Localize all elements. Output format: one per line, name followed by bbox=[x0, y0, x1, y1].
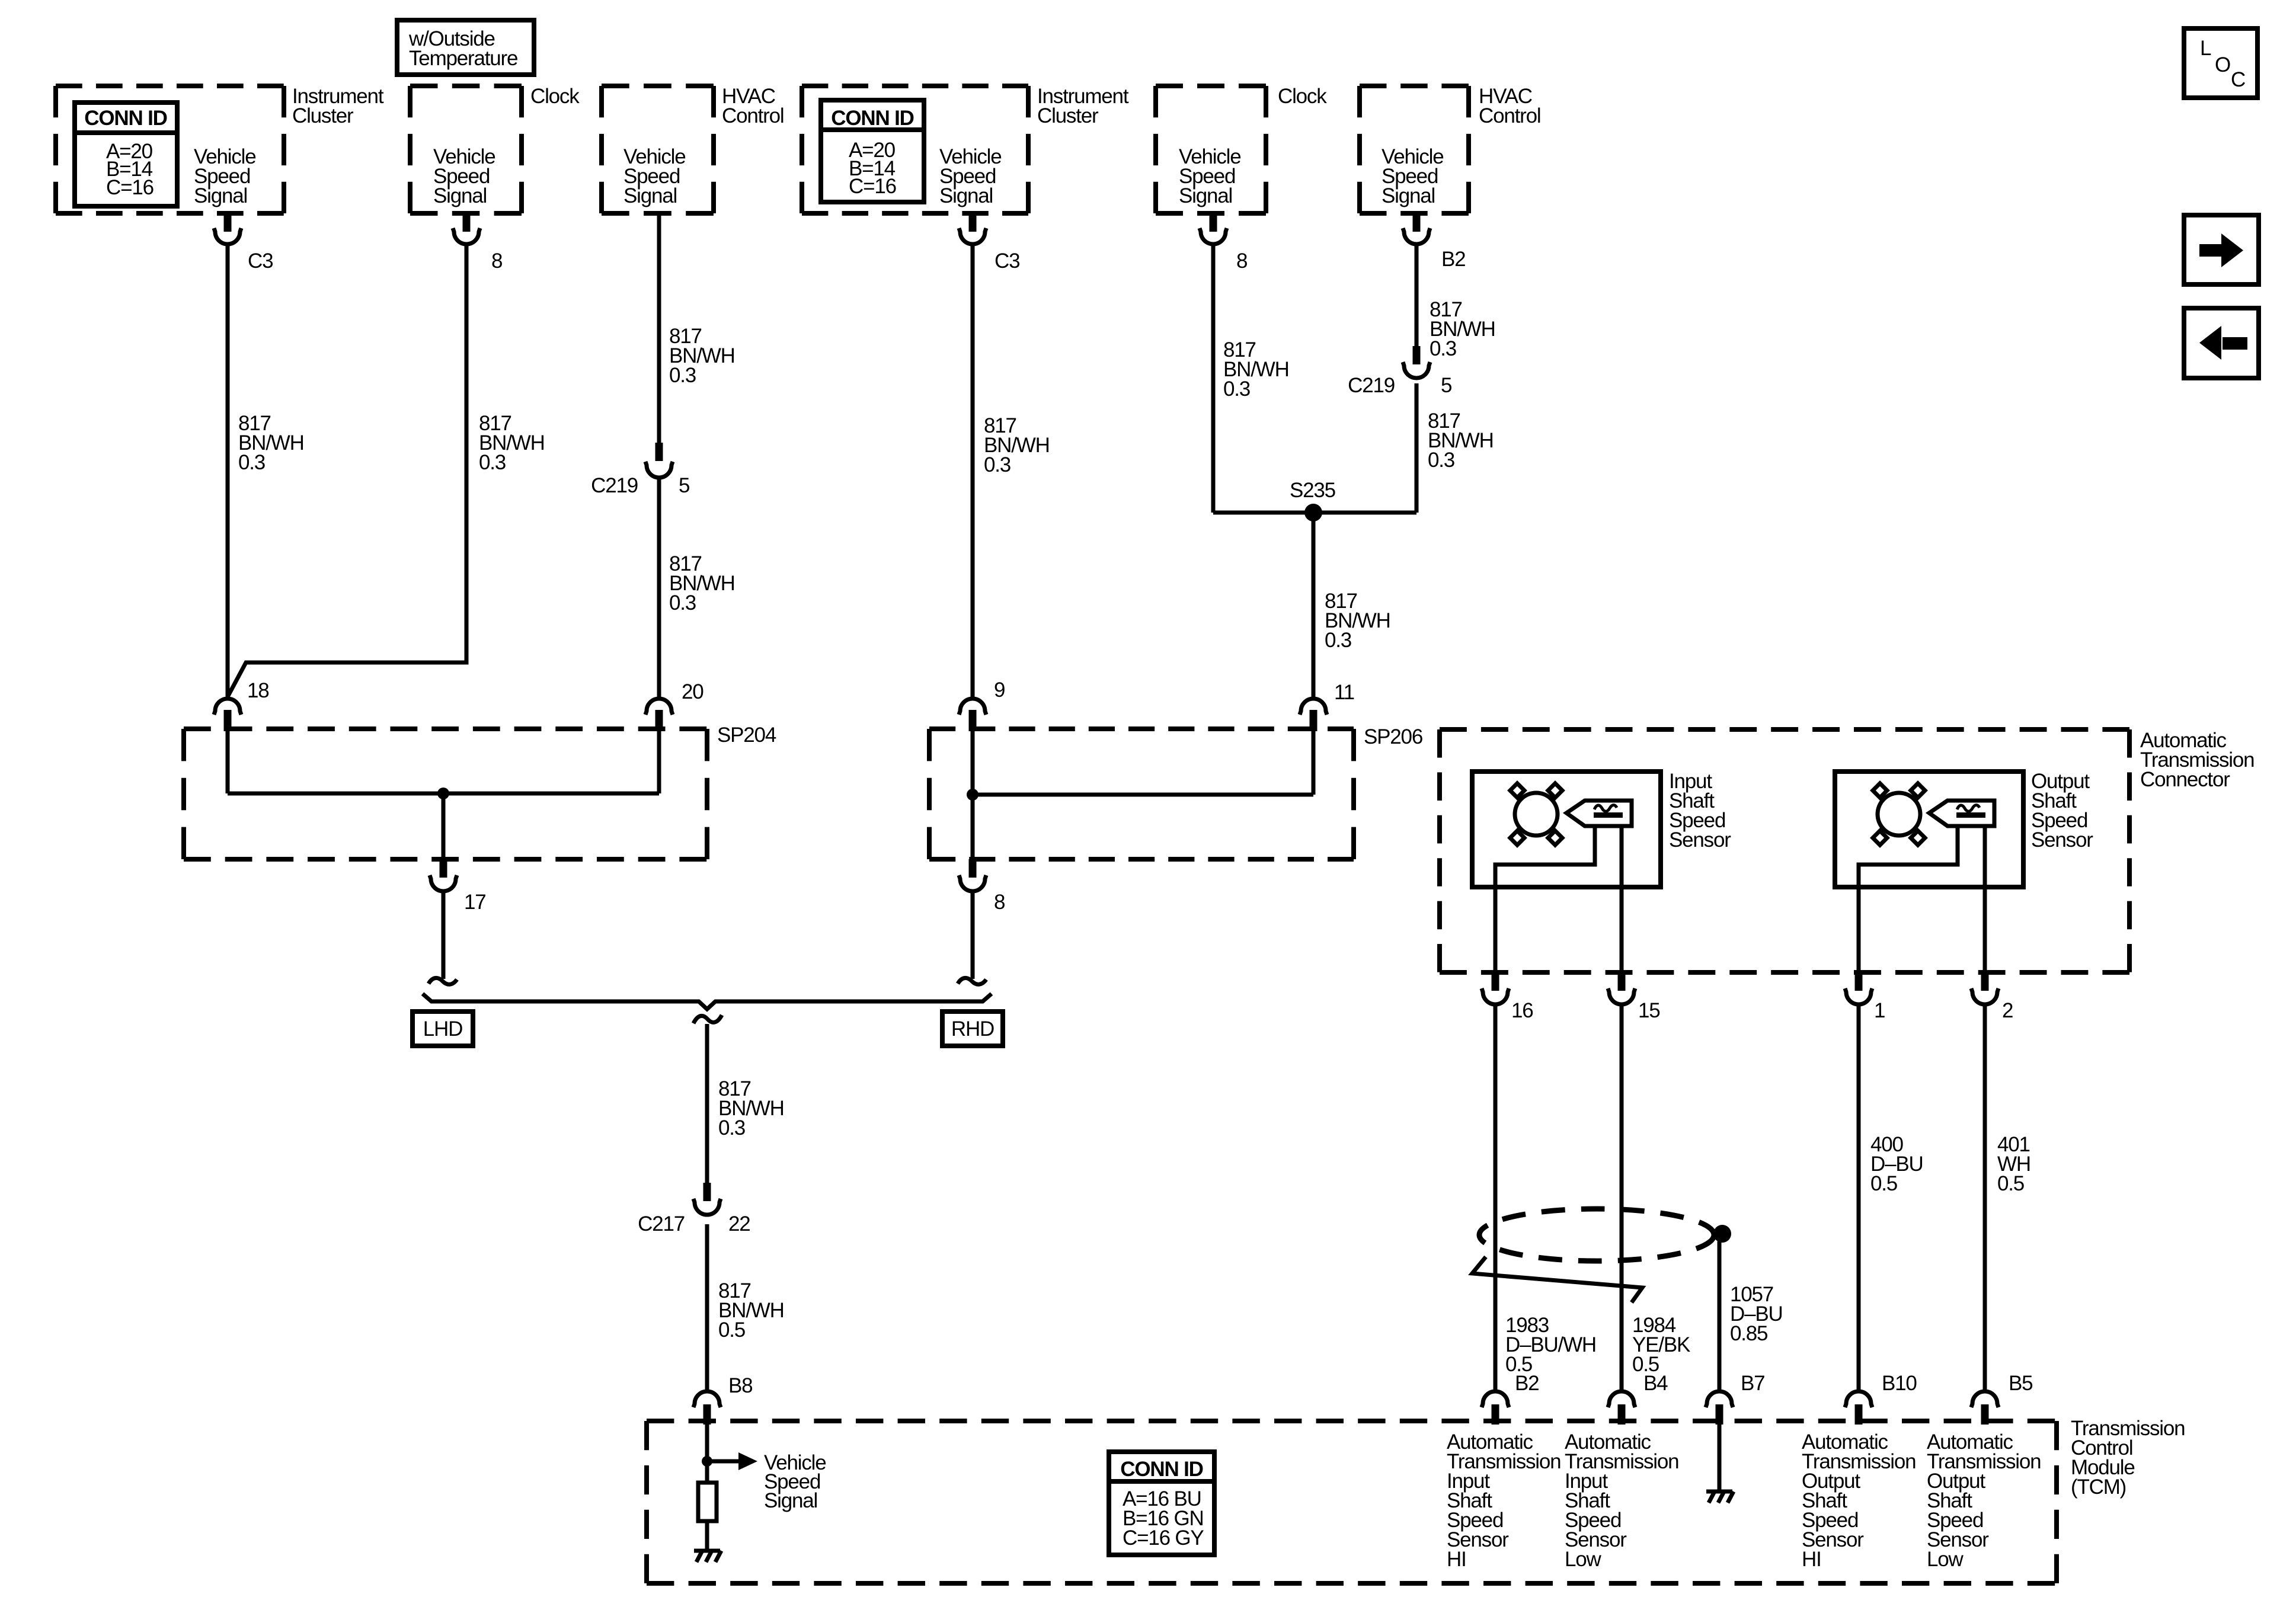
pin 9 into SP206 bbox=[959, 678, 1005, 731]
svg-text:0.5: 0.5 bbox=[718, 1318, 745, 1342]
svg-text:Cluster: Cluster bbox=[292, 104, 354, 127]
wire 1057 D-BU drain to TCM B7 bbox=[1718, 1241, 1722, 1391]
SP204 internal wires bbox=[226, 731, 230, 793]
svg-text:Control: Control bbox=[722, 104, 784, 127]
output sensor squiggle bbox=[1957, 805, 1980, 812]
wire 817 BN/WH from C219 (right) down to S235 bbox=[1415, 383, 1419, 513]
output sensor reluctor circle bbox=[1878, 793, 1920, 836]
svg-text:C219: C219 bbox=[1348, 374, 1395, 397]
brace center squiggle bbox=[693, 1015, 722, 1023]
pin B8 into TCM bbox=[693, 1374, 752, 1425]
left arrow box bbox=[2184, 308, 2259, 378]
splice S235 junction dot bbox=[1304, 504, 1322, 521]
TCM pin label: automatic transmission input shaft speed sensor HI bbox=[1447, 1430, 1560, 1571]
svg-text:Low: Low bbox=[1565, 1548, 1602, 1571]
svg-text:17: 17 bbox=[464, 891, 486, 914]
wire 401 WH from pin 2 to TCM B5 bbox=[1983, 1005, 1987, 1391]
RHD box bbox=[942, 1012, 1003, 1046]
pin 15 out of transmission connector bbox=[1608, 972, 1660, 1022]
svg-text:0.3: 0.3 bbox=[1430, 337, 1456, 360]
wire end squiggle (LHD side) bbox=[428, 978, 457, 984]
svg-text:B5: B5 bbox=[2009, 1372, 2032, 1395]
HVAC control (right) dashed box bbox=[1360, 85, 1540, 213]
wire 817 BN/WH from left HVAC control down to C219 bbox=[657, 211, 661, 444]
wire 817 BN/WH from brace down to C217 bbox=[705, 1024, 709, 1183]
shield pointer arrow bbox=[1472, 1257, 1642, 1302]
svg-text:SP206: SP206 bbox=[1364, 725, 1422, 748]
inline connector C217 pin 22 bbox=[638, 1183, 750, 1235]
pin 2 out of transmission connector bbox=[1971, 972, 2013, 1022]
pin 8 out of SP206 bbox=[959, 859, 1005, 914]
pin C3 of left instrument cluster bbox=[214, 212, 273, 273]
svg-text:0.3: 0.3 bbox=[479, 451, 506, 474]
pin 1 out of transmission connector bbox=[1845, 972, 1885, 1022]
CONN ID table (right instrument cluster) bbox=[821, 100, 924, 202]
svg-text:0.3: 0.3 bbox=[238, 451, 265, 474]
transmission control module TCM dashed box bbox=[647, 1417, 2185, 1583]
wire from pin 8 down to RHD brace bbox=[971, 892, 975, 979]
pin B4 into TCM bbox=[1608, 1372, 1668, 1425]
output sensor pickup arrow pentagon bbox=[1929, 801, 1994, 826]
HVAC control (left) dashed box bbox=[602, 85, 784, 213]
pin 16 out of transmission connector bbox=[1482, 972, 1533, 1022]
svg-text:Sensor: Sensor bbox=[1669, 828, 1731, 852]
wire from pin 17 down to LHD brace bbox=[442, 892, 446, 979]
wire resistor to ground bbox=[705, 1521, 709, 1551]
wire 817 BN/WH from left instrument cluster C3 to SP204 pin 18 bbox=[226, 245, 230, 699]
svg-text:Signal: Signal bbox=[623, 184, 677, 207]
svg-text:SP204: SP204 bbox=[717, 724, 776, 747]
pin C3 of right instrument cluster bbox=[959, 212, 1019, 273]
svg-text:20: 20 bbox=[682, 680, 703, 703]
output sensor bar bbox=[1956, 812, 1985, 818]
svg-text:C=16: C=16 bbox=[849, 175, 896, 198]
svg-text:Control: Control bbox=[1479, 104, 1540, 127]
pin 18 into SP204 bbox=[214, 679, 269, 731]
LHD/RHD option brace bbox=[423, 994, 992, 1009]
right arrow box bbox=[2184, 215, 2259, 284]
svg-text:0.3: 0.3 bbox=[1428, 449, 1454, 472]
svg-text:1: 1 bbox=[1874, 999, 1885, 1022]
svg-text:LHD: LHD bbox=[423, 1017, 462, 1041]
svg-text:B2: B2 bbox=[1515, 1372, 1539, 1395]
svg-text:0.5: 0.5 bbox=[1997, 1172, 2024, 1195]
wire 817 BN/WH 0.5 from C217 down to TCM pin B8 bbox=[705, 1224, 709, 1391]
input sensor squiggle bbox=[1594, 805, 1617, 812]
svg-text:Low: Low bbox=[1927, 1548, 1964, 1571]
wire end squiggle (RHD side) bbox=[958, 978, 986, 984]
clock (right) dashed box bbox=[1156, 85, 1327, 213]
input sensor reluctor circle bbox=[1515, 793, 1558, 836]
svg-text:B4: B4 bbox=[1643, 1372, 1668, 1395]
output shaft speed sensor box bbox=[1835, 770, 2093, 887]
shield drain junction dot bbox=[1713, 1225, 1731, 1243]
svg-text:CONN ID: CONN ID bbox=[831, 107, 913, 130]
inline connector C219 (right) pin 5 bbox=[1348, 346, 1451, 397]
svg-text:0.3: 0.3 bbox=[669, 364, 696, 387]
input sensor diamonds bbox=[1510, 783, 1562, 845]
svg-text:5: 5 bbox=[679, 474, 689, 497]
svg-text:S235: S235 bbox=[1290, 479, 1335, 502]
SP204 junction dot bbox=[437, 788, 449, 799]
pin 11 into SP206 bbox=[1300, 681, 1354, 731]
input sensor wire to pin 15 bbox=[1620, 826, 1624, 974]
clock (left) dashed box bbox=[410, 85, 580, 213]
svg-text:5: 5 bbox=[1441, 374, 1451, 397]
automatic transmission connector dashed box bbox=[1440, 729, 2254, 972]
wire 817 BN/WH from left clock pin 8, joins pin 18 bbox=[228, 245, 466, 697]
wire 1984 YE/BK from pin 15 to TCM B4 bbox=[1620, 1005, 1624, 1391]
svg-text:Signal: Signal bbox=[433, 184, 487, 207]
TCM internal junction dot bbox=[702, 1456, 712, 1467]
splice pack SP206 dashed box bbox=[929, 725, 1422, 859]
svg-text:8: 8 bbox=[994, 891, 1005, 914]
pin B2 into TCM bbox=[1482, 1372, 1539, 1425]
svg-text:Cluster: Cluster bbox=[1037, 104, 1099, 127]
svg-text:O: O bbox=[2215, 53, 2230, 76]
SP206 junction dot bbox=[967, 789, 978, 801]
svg-text:8: 8 bbox=[491, 249, 502, 273]
svg-text:Clock: Clock bbox=[1278, 85, 1327, 108]
pin 17 out of SP204 bbox=[430, 859, 486, 914]
input shaft speed sensor box bbox=[1472, 770, 1731, 887]
LHD box bbox=[412, 1012, 473, 1046]
svg-text:C=16 GY: C=16 GY bbox=[1123, 1526, 1204, 1550]
svg-text:HI: HI bbox=[1802, 1548, 1821, 1571]
ground symbol (TCM left) bbox=[694, 1551, 721, 1562]
svg-text:RHD: RHD bbox=[951, 1017, 994, 1041]
svg-text:C: C bbox=[2231, 68, 2245, 91]
output sensor wire to pin 2 bbox=[1983, 826, 1987, 974]
shield twisted-pair dashed ellipse bbox=[1479, 1209, 1714, 1261]
inline connector C219 (left) pin 5 bbox=[591, 443, 689, 497]
TCM pin label: automatic transmission input shaft speed sensor Low bbox=[1565, 1430, 1678, 1571]
TCM internal wire from B8 bbox=[705, 1422, 709, 1483]
splice pack SP204 dashed box bbox=[184, 724, 776, 859]
svg-text:C3: C3 bbox=[994, 249, 1019, 273]
wire 817 BN/WH from right HVAC B2 down to C219 bbox=[1415, 245, 1419, 346]
w/Outside Temperature box bbox=[397, 20, 534, 75]
wire 817 BN/WH from S235 down to SP206 pin 11 bbox=[1312, 513, 1316, 699]
svg-text:B7: B7 bbox=[1741, 1372, 1764, 1395]
svg-text:22: 22 bbox=[728, 1212, 750, 1235]
svg-text:8: 8 bbox=[1236, 249, 1247, 273]
wire 400 D-BU from pin 1 to TCM B10 bbox=[1857, 1005, 1861, 1391]
vehicle speed signal arrow bbox=[707, 1451, 826, 1512]
CONN ID table (TCM) bbox=[1109, 1452, 1214, 1555]
CONN ID table (left instrument cluster) bbox=[75, 103, 177, 206]
svg-text:B2: B2 bbox=[1441, 248, 1465, 271]
svg-text:Temperature: Temperature bbox=[409, 47, 517, 70]
svg-text:HI: HI bbox=[1447, 1548, 1466, 1571]
svg-text:0.3: 0.3 bbox=[1325, 629, 1351, 652]
svg-text:Signal: Signal bbox=[764, 1489, 817, 1512]
svg-text:(TCM): (TCM) bbox=[2071, 1475, 2126, 1499]
svg-text:C219: C219 bbox=[591, 474, 638, 497]
TCM pin label: automatic transmission output shaft speed sensor Low bbox=[1927, 1430, 2041, 1571]
svg-text:CONN ID: CONN ID bbox=[84, 107, 167, 130]
pin B2 of right HVAC control bbox=[1403, 212, 1465, 271]
svg-text:0.3: 0.3 bbox=[1223, 377, 1250, 401]
svg-text:0.5: 0.5 bbox=[1870, 1172, 1897, 1195]
svg-text:11: 11 bbox=[1334, 681, 1354, 704]
wire B7 to ground inside TCM bbox=[1718, 1424, 1722, 1491]
svg-text:C217: C217 bbox=[638, 1212, 685, 1235]
svg-text:Sensor: Sensor bbox=[2031, 828, 2093, 852]
pin B7 into TCM bbox=[1706, 1372, 1764, 1425]
wire 1983 D-BU/WH from pin 16 to TCM B2 bbox=[1494, 1005, 1498, 1391]
svg-text:Signal: Signal bbox=[1382, 184, 1435, 207]
svg-text:C3: C3 bbox=[248, 249, 273, 273]
LOC box bbox=[2184, 28, 2257, 98]
svg-text:0.3: 0.3 bbox=[718, 1116, 745, 1140]
pin 8 of left clock bbox=[453, 212, 502, 273]
pin B10 into TCM bbox=[1845, 1372, 1917, 1425]
svg-text:B8: B8 bbox=[728, 1374, 752, 1397]
ground symbol (TCM B7) bbox=[1706, 1491, 1734, 1503]
svg-text:9: 9 bbox=[994, 678, 1005, 702]
svg-text:C=16: C=16 bbox=[106, 176, 154, 199]
wire 817 BN/WH from right clock pin 8 down to S235 bbox=[1211, 245, 1216, 513]
svg-text:0.85: 0.85 bbox=[1730, 1322, 1767, 1345]
wire 817 BN/WH from C219 (left) to SP204 pin 20 bbox=[657, 478, 661, 699]
output sensor wire to pin 1 bbox=[1859, 826, 1958, 974]
svg-text:Signal: Signal bbox=[194, 184, 247, 207]
svg-text:Clock: Clock bbox=[530, 85, 580, 108]
input sensor pickup arrow pentagon bbox=[1566, 801, 1632, 826]
svg-text:Signal: Signal bbox=[1179, 184, 1232, 207]
input sensor wire to pin 16 bbox=[1495, 826, 1595, 974]
svg-text:15: 15 bbox=[1638, 999, 1660, 1022]
TCM pin label: automatic transmission output shaft speed sensor HI bbox=[1802, 1430, 1916, 1571]
svg-text:0.3: 0.3 bbox=[984, 453, 1011, 476]
input sensor bar bbox=[1594, 812, 1623, 818]
pin 20 into SP204 bbox=[645, 680, 703, 731]
pin B5 into TCM bbox=[1971, 1372, 2032, 1425]
resistor in TCM bbox=[698, 1483, 717, 1521]
svg-text:2: 2 bbox=[2002, 999, 2013, 1022]
wire 817 BN/WH from right instrument cluster C3 to SP206 pin 9 bbox=[971, 245, 975, 699]
svg-text:16: 16 bbox=[1511, 999, 1533, 1022]
svg-text:B10: B10 bbox=[1882, 1372, 1917, 1395]
instrument cluster (right) dashed box bbox=[802, 85, 1129, 213]
output sensor diamonds bbox=[1873, 783, 1925, 845]
pin 8 of right clock bbox=[1200, 212, 1247, 273]
svg-text:Signal: Signal bbox=[939, 184, 993, 207]
svg-text:CONN ID: CONN ID bbox=[1120, 1458, 1203, 1481]
instrument cluster (left) dashed box bbox=[56, 85, 384, 213]
SP206 internal wires bbox=[971, 731, 975, 860]
splice S235 horizontal wire bbox=[1213, 511, 1416, 515]
svg-text:18: 18 bbox=[247, 679, 269, 702]
svg-text:Connector: Connector bbox=[2140, 768, 2230, 791]
svg-text:0.3: 0.3 bbox=[669, 591, 696, 614]
svg-text:L: L bbox=[2200, 37, 2211, 60]
